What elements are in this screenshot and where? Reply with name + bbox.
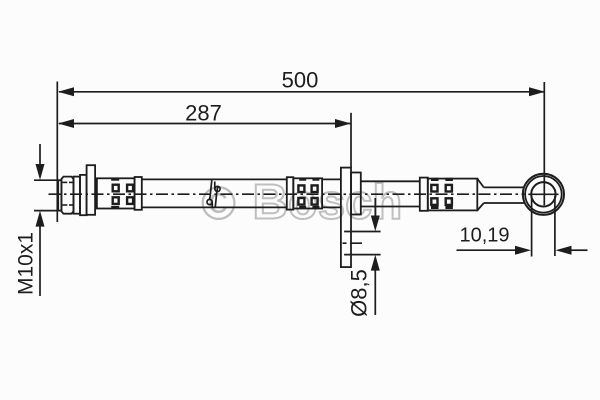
watermark copyright symbol — [201, 177, 236, 230]
hose right segment top — [361, 180, 420, 182]
svg-text:©: © — [201, 177, 236, 230]
hose left segment bottom — [142, 206, 287, 208]
left fitting threaded nut body — [61, 177, 73, 214]
crimp collar 2 left cap — [287, 177, 294, 209]
bracket plate — [341, 168, 351, 268]
dim 8,5 bottom arrow — [371, 255, 380, 315]
hose mid segment top — [322, 178, 341, 180]
banjo eye ring — [525, 176, 562, 213]
svg-text:287: 287 — [185, 101, 222, 126]
left fitting washer — [80, 175, 87, 215]
hose left segment top — [142, 178, 287, 180]
dim 287 right extension line — [350, 113, 352, 168]
hose break squiggle — [207, 180, 220, 207]
dim 8,5 top arrow — [371, 198, 380, 231]
svg-text:500: 500 — [282, 68, 319, 93]
collar 2 squares — [298, 185, 317, 204]
crimp collar 2 body — [293, 178, 322, 208]
watermark Bosch logotype — [253, 176, 403, 230]
crimp collar 3 body / sleeve — [428, 179, 478, 211]
dim 500 left extension line — [56, 82, 58, 223]
dim 10,19 left arrow — [457, 246, 532, 255]
dim M10x1 top arrow — [34, 144, 57, 180]
collar 2 crimp tabs — [299, 178, 319, 210]
svg-text:10,19: 10,19 — [459, 225, 509, 247]
crimp collar 3 left cap — [420, 178, 428, 211]
banjo eye hole — [531, 182, 555, 206]
dim M10x1 bottom arrow — [34, 211, 57, 296]
collar 1 squares — [113, 185, 133, 204]
hose mid segment bottom — [322, 206, 341, 208]
pipe top — [484, 186, 524, 188]
dim 10,19 left extension line — [531, 196, 533, 257]
dim 500 line — [58, 87, 545, 96]
bracket hole top line — [344, 231, 381, 233]
thread crest dashes — [63, 182, 74, 205]
svg-text:Ø8,5: Ø8,5 — [346, 269, 371, 317]
dim 10,19 right arrow — [556, 246, 588, 255]
bracket hole bottom line — [344, 254, 381, 256]
svg-text:M10x1: M10x1 — [15, 232, 38, 295]
dim 500 right extension line — [543, 82, 545, 205]
left fitting end cap — [58, 180, 61, 210]
collar 3 taper to pipe — [477, 179, 484, 211]
banjo cross horizontal — [528, 193, 558, 195]
collar 1 right cap — [135, 177, 142, 210]
dim 287 line — [58, 119, 351, 128]
crimp collar 1 body — [97, 178, 135, 208]
collar 1 crimp tabs — [111, 178, 119, 210]
pipe bottom — [484, 202, 525, 204]
collar 3 squares — [431, 185, 452, 205]
banjo eye outer circle — [523, 174, 564, 215]
collar 3 crimp tabs — [431, 178, 453, 209]
centerline — [49, 193, 527, 195]
left fitting flange — [87, 165, 96, 215]
bracket hole centerline — [343, 242, 363, 244]
hose right segment bottom — [361, 206, 420, 208]
dim 10,19 right extension line — [554, 196, 556, 256]
left fitting hex section — [74, 177, 81, 214]
svg-text:Bosch: Bosch — [253, 176, 403, 230]
bracket boss — [351, 173, 361, 215]
